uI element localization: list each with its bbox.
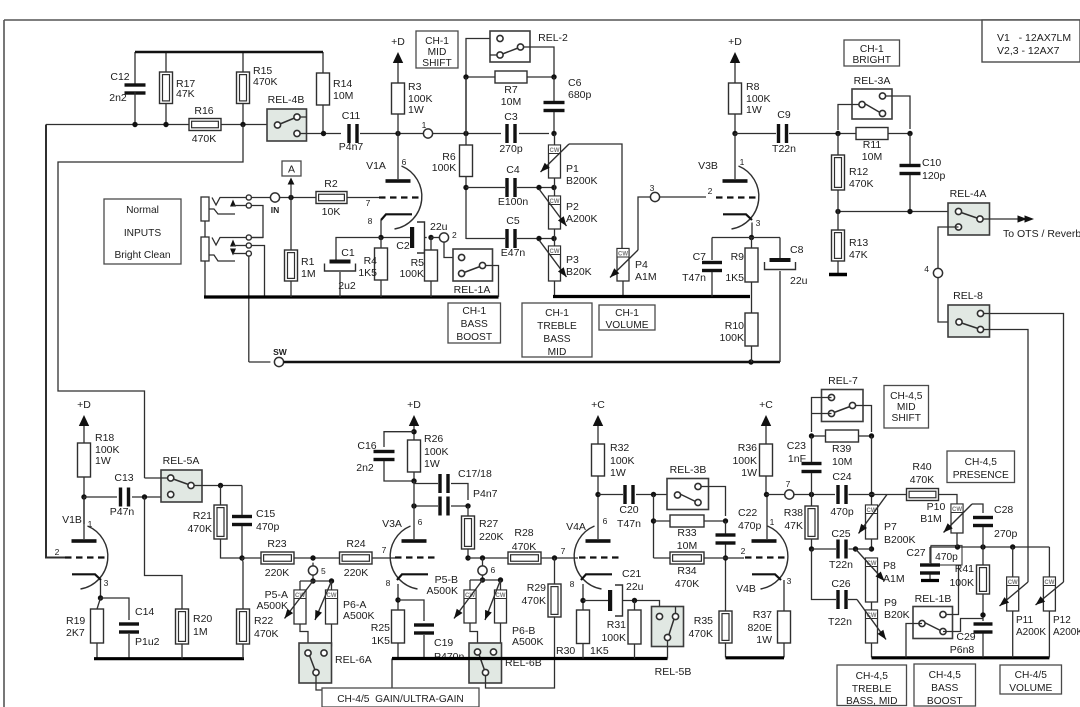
- svg-text:REL-6A: REL-6A: [335, 654, 372, 666]
- wire C17 left: [414, 483, 438, 485]
- wire R19 bottom: [96, 643, 98, 659]
- wire C26 right: [848, 599, 857, 601]
- svg-text:R18: R18: [95, 432, 114, 444]
- svg-text:100K: 100K: [949, 577, 974, 589]
- svg-text:C24: C24: [832, 471, 851, 483]
- wire REL-3B out: [709, 487, 726, 517]
- tube V4A: [574, 526, 601, 589]
- wire R20 bottom: [181, 644, 183, 659]
- svg-text:R23: R23: [267, 538, 286, 550]
- wire R39 left: [812, 435, 826, 437]
- wire R23 right: [294, 557, 340, 559]
- wire R9 bottom: [751, 282, 753, 297]
- wire C6 top: [553, 77, 555, 101]
- wire V3A plate: [413, 506, 415, 539]
- svg-text:220K: 220K: [265, 567, 290, 579]
- svg-text:C19: C19: [434, 637, 453, 649]
- node SW: [274, 357, 283, 366]
- svg-text:INPUTS: INPUTS: [124, 228, 162, 239]
- svg-text:CH-1: CH-1: [615, 308, 639, 319]
- wire C11 to node1: [360, 133, 423, 135]
- capacitor C6: [544, 101, 565, 104]
- svg-text:A1M: A1M: [635, 271, 657, 283]
- svg-text:BOOST: BOOST: [456, 332, 492, 343]
- svg-text:A1M: A1M: [883, 573, 905, 585]
- wire V1A cathode: [380, 220, 382, 238]
- svg-text:CH-4,5: CH-4,5: [965, 457, 998, 468]
- svg-text:8: 8: [570, 579, 575, 589]
- info box CH-4/5 GAIN: [322, 688, 479, 707]
- capacitor C17: [438, 474, 441, 493]
- wire C23 col: [811, 436, 813, 462]
- wire top thick bus: [134, 52, 136, 86]
- svg-text:470p: 470p: [935, 552, 958, 563]
- svg-text:C11: C11: [342, 110, 361, 122]
- svg-text:C2: C2: [396, 240, 410, 252]
- wire P2 bottom: [554, 229, 556, 246]
- wire rail to REL-5A top: [145, 477, 168, 479]
- relay REL-1B: [913, 607, 953, 639]
- svg-text:CW: CW: [1044, 580, 1054, 586]
- wire C5 left: [466, 238, 505, 240]
- svg-text:REL-3B: REL-3B: [670, 464, 707, 476]
- wire R11 right: [888, 133, 910, 135]
- svg-text:P1: P1: [566, 163, 579, 175]
- capacitor C18: [438, 497, 441, 516]
- wire C9 left: [735, 133, 776, 135]
- wire R23 left: [242, 557, 261, 559]
- svg-text:1W: 1W: [756, 634, 772, 646]
- svg-text:MID: MID: [428, 47, 447, 58]
- svg-text:A200K: A200K: [1053, 627, 1080, 638]
- wire R28 right: [541, 557, 578, 559]
- resistor R28: [508, 552, 541, 564]
- svg-text:C14: C14: [135, 606, 154, 618]
- wire P7 bottom: [871, 539, 873, 549]
- svg-text:T47n: T47n: [682, 272, 706, 284]
- P3 wiper: [539, 240, 567, 277]
- arrow to OTS: [1018, 215, 1028, 222]
- resistor R5: [430, 238, 432, 251]
- svg-text:P4: P4: [635, 259, 648, 271]
- relay REL-3A: [852, 89, 892, 119]
- P2 wiper: [539, 189, 567, 226]
- svg-text:REL-7: REL-7: [828, 375, 858, 387]
- svg-text:1: 1: [770, 517, 775, 527]
- wire REL-4A out: [990, 218, 1021, 220]
- svg-text:R39: R39: [832, 443, 851, 455]
- svg-text:REL-2: REL-2: [538, 32, 568, 44]
- svg-text:R20: R20: [193, 613, 212, 625]
- relay REL-1A: [453, 249, 493, 281]
- capacitor C25: [836, 540, 839, 559]
- page frame border: [4, 19, 1080, 21]
- svg-text:REL-8: REL-8: [953, 290, 983, 302]
- svg-text:SHIFT: SHIFT: [422, 58, 451, 69]
- resistor R18: [78, 443, 91, 477]
- svg-text:5: 5: [321, 566, 326, 576]
- wire V1A plate: [397, 134, 399, 180]
- ground bus tone stack: [553, 295, 750, 298]
- wire R33 right: [704, 520, 726, 522]
- svg-text:R41: R41: [955, 563, 974, 575]
- svg-text:1: 1: [422, 120, 427, 130]
- resistor R3: [392, 83, 405, 114]
- wire node6 rail: [470, 579, 501, 581]
- svg-text:CW: CW: [618, 251, 628, 257]
- resistor R22: [237, 609, 250, 644]
- svg-text:10M: 10M: [677, 540, 697, 552]
- svg-text:P10: P10: [927, 501, 946, 513]
- info box Normal INPUTS Bright Clean: [104, 199, 181, 264]
- wire y124 right: [221, 124, 267, 126]
- tube V3B: [732, 166, 759, 229]
- wire REL-1A to ground: [493, 266, 499, 298]
- wire REL-4A NC to node4: [938, 227, 959, 268]
- svg-text:VOLUME: VOLUME: [1009, 683, 1052, 694]
- P9 wiper: [857, 600, 886, 640]
- svg-text:C22: C22: [738, 507, 757, 519]
- svg-text:REL-5A: REL-5A: [163, 455, 200, 467]
- info box CH-1 BRIGHT: [844, 40, 900, 66]
- svg-text:B200K: B200K: [884, 534, 916, 546]
- svg-text:A200K: A200K: [566, 213, 598, 225]
- P11 wiper: [1000, 582, 1029, 606]
- wire C25 right: [849, 548, 872, 550]
- resistor R2: [316, 192, 347, 204]
- svg-text:470K: 470K: [187, 523, 212, 535]
- svg-text:+D: +D: [391, 36, 405, 48]
- capacitor C7: [702, 261, 722, 264]
- svg-text:22u: 22u: [430, 221, 448, 233]
- svg-text:R38: R38: [784, 507, 803, 519]
- wire V4A cathode: [582, 584, 584, 610]
- wire C19 branch: [398, 600, 424, 621]
- relay REL-4A: [948, 203, 990, 235]
- svg-text:470K: 470K: [192, 133, 217, 145]
- capacitor C15: [232, 515, 252, 518]
- resistor R25: [392, 610, 405, 643]
- svg-text:CW: CW: [550, 249, 560, 255]
- svg-text:P47n: P47n: [110, 506, 135, 518]
- wire rail down to R20: [145, 497, 183, 609]
- wire V1B cathode: [100, 580, 102, 598]
- resistor R31: [634, 601, 636, 611]
- svg-text:PRESENCE: PRESENCE: [953, 470, 1009, 481]
- svg-text:6: 6: [491, 565, 496, 575]
- wire node5 links: [312, 563, 314, 566]
- svg-text:R16: R16: [194, 105, 213, 117]
- svg-text:Bright Clean: Bright Clean: [114, 250, 170, 261]
- wire C7 branch: [711, 238, 713, 261]
- wire REL-1B common left: [906, 624, 922, 658]
- wire P3 bottom: [554, 281, 556, 296]
- svg-text:P3: P3: [566, 254, 579, 266]
- svg-text:220K: 220K: [479, 531, 504, 543]
- resistor R36: [760, 444, 773, 476]
- relay REL-4B: [267, 109, 307, 141]
- wire C18 left: [414, 505, 438, 507]
- wire R38 bottom: [811, 539, 813, 549]
- capacitor C26: [836, 590, 839, 609]
- svg-text:100K: 100K: [601, 632, 626, 644]
- wire R3 bottom: [397, 114, 399, 134]
- wire R28 left: [468, 557, 508, 559]
- svg-text:R35: R35: [694, 615, 713, 627]
- wire cathode rail: [712, 237, 778, 239]
- svg-text:8: 8: [386, 578, 391, 588]
- input jack J2 switch1: [230, 240, 236, 247]
- svg-text:7: 7: [561, 546, 566, 556]
- svg-text:C17/18: C17/18: [458, 468, 492, 480]
- svg-text:100K: 100K: [424, 446, 449, 458]
- svg-text:BRIGHT: BRIGHT: [853, 55, 892, 66]
- wire C4 left: [466, 187, 505, 189]
- svg-text:470K: 470K: [521, 595, 546, 607]
- relay REL-6A: [299, 643, 332, 683]
- svg-text:A500K: A500K: [256, 600, 288, 612]
- capacitor C16: [374, 450, 395, 453]
- ground bus input section: [204, 295, 499, 298]
- svg-text:MID: MID: [897, 402, 916, 413]
- resistor R35: [719, 611, 732, 643]
- svg-text:R30: R30: [556, 645, 575, 657]
- svg-text:22u: 22u: [790, 275, 808, 287]
- svg-text:R12: R12: [849, 166, 868, 178]
- svg-text:C13: C13: [114, 472, 133, 484]
- resistor R1: [290, 198, 292, 251]
- svg-text:1W: 1W: [741, 467, 757, 479]
- svg-text:P1u2: P1u2: [135, 636, 160, 648]
- svg-text:B1M: B1M: [920, 513, 942, 525]
- ground C27: [929, 575, 931, 580]
- wire R5 bottom: [430, 281, 432, 297]
- svg-text:BASS, MID: BASS, MID: [846, 696, 898, 707]
- P10 wiper: [944, 504, 973, 533]
- svg-text:2u2: 2u2: [338, 280, 356, 292]
- wire R32 bottom: [597, 476, 599, 539]
- svg-text:BOOST: BOOST: [927, 696, 963, 707]
- resistor R17: [165, 52, 167, 72]
- info box CH-4/5 VOLUME: [1000, 665, 1062, 694]
- node IN: [270, 193, 279, 202]
- node 7: [785, 490, 794, 499]
- wire left vertical to V1B grid: [46, 125, 65, 558]
- wire V1B plate: [83, 497, 85, 539]
- resistor R10: [751, 297, 753, 314]
- svg-text:IN: IN: [271, 205, 280, 215]
- svg-text:SHIFT: SHIFT: [892, 413, 921, 424]
- svg-text:10M: 10M: [832, 456, 852, 468]
- svg-text:R22: R22: [254, 615, 273, 627]
- resistor R34: [670, 552, 704, 564]
- svg-text:CH-1: CH-1: [860, 44, 884, 55]
- wire P9 bottom: [871, 643, 873, 658]
- wire V4B grid dash lead: [742, 557, 744, 559]
- svg-text:22u: 22u: [626, 581, 644, 593]
- wire C20 right: [636, 494, 674, 496]
- svg-text:CH-4,5: CH-4,5: [856, 671, 889, 682]
- wire REL-8 NO right: [990, 314, 1064, 583]
- wire node2 to REL-1A: [444, 242, 459, 257]
- svg-text:7: 7: [382, 545, 387, 555]
- svg-text:+D: +D: [407, 399, 421, 411]
- svg-text:C20: C20: [619, 504, 638, 516]
- P6-B wiper: [485, 580, 501, 620]
- svg-text:2: 2: [55, 547, 60, 557]
- wire V3B plate: [734, 134, 736, 180]
- ground bus CH45: [872, 656, 1050, 659]
- wire C19 bottom: [423, 635, 425, 659]
- resistor R30: [577, 610, 590, 644]
- resistor R38: [811, 495, 813, 506]
- info box CH-4,5 BASS BOOST: [914, 664, 976, 706]
- wire IN to R2: [280, 197, 316, 199]
- svg-text:T22n: T22n: [828, 616, 852, 628]
- svg-text:100K: 100K: [399, 268, 424, 280]
- svg-text:REL-5B: REL-5B: [655, 666, 692, 678]
- relay REL-2: [490, 31, 530, 62]
- wire C13 right: [132, 496, 167, 498]
- svg-text:100K: 100K: [432, 162, 457, 174]
- svg-text:P6n8: P6n8: [950, 644, 975, 656]
- capacitor C24: [836, 485, 839, 504]
- wire R35 bottom: [725, 643, 727, 658]
- svg-text:2: 2: [741, 546, 746, 556]
- svg-text:P9: P9: [884, 597, 897, 609]
- svg-text:A: A: [288, 164, 295, 176]
- input jack J2 switch2: [230, 249, 236, 256]
- svg-text:REL-4B: REL-4B: [268, 94, 305, 106]
- svg-text:120p: 120p: [922, 170, 946, 182]
- svg-text:CW: CW: [550, 199, 560, 205]
- svg-text:10M: 10M: [333, 90, 353, 102]
- wire R26 top dot: [411, 429, 416, 434]
- svg-text:P8: P8: [883, 560, 896, 572]
- svg-text:V1 - 12AX7LM: V1 - 12AX7LM: [997, 32, 1071, 44]
- wire R8 bottom: [734, 114, 736, 134]
- svg-text:TREBLE: TREBLE: [852, 684, 892, 695]
- svg-text:+D: +D: [77, 399, 91, 411]
- svg-text:CW: CW: [1008, 580, 1018, 586]
- wire R24 right: [372, 557, 379, 559]
- potentiometer P5-B: [464, 590, 476, 623]
- svg-text:C3: C3: [504, 111, 518, 123]
- wire node4 to REL-8: [938, 278, 948, 322]
- wire R4 bottom: [380, 280, 382, 297]
- tube legend box: [982, 20, 1080, 62]
- input jack J1 tip contact: [212, 198, 249, 206]
- wire P8 bottom: [871, 602, 873, 610]
- resistor R41: [982, 547, 984, 565]
- capacitor C10: [900, 164, 921, 167]
- svg-text:CH-1: CH-1: [545, 308, 569, 319]
- svg-text:C23: C23: [787, 440, 806, 452]
- node A box: [282, 161, 301, 176]
- wire C8 top: [779, 238, 781, 259]
- svg-text:1W: 1W: [408, 104, 424, 116]
- svg-text:1K5: 1K5: [725, 272, 744, 284]
- wire C21 to REL-5B: [655, 601, 660, 614]
- svg-text:47K: 47K: [176, 88, 195, 100]
- resistor R24: [340, 552, 373, 564]
- svg-text:REL-1A: REL-1A: [454, 284, 491, 296]
- wire P5-A bottom: [300, 624, 308, 650]
- svg-text:CW: CW: [550, 148, 560, 154]
- resistor R4: [380, 238, 382, 249]
- svg-text:R29: R29: [527, 582, 546, 594]
- svg-text:1M: 1M: [193, 626, 208, 638]
- wire REL4B out to C11: [307, 133, 342, 135]
- svg-text:2n2: 2n2: [356, 462, 374, 474]
- wire tip to IN node: [251, 197, 270, 199]
- svg-text:V1B: V1B: [62, 514, 82, 526]
- wire P11 top: [1012, 547, 1014, 577]
- ground bus R35-R37: [726, 656, 785, 659]
- wire R14 bottom: [322, 105, 324, 133]
- svg-text:2K7: 2K7: [66, 627, 85, 639]
- wire R25 bottom: [397, 643, 399, 659]
- input jack J2 sleeve zigzag: [209, 255, 235, 261]
- wire V4B grid lead: [726, 557, 743, 559]
- capacitor C12: [125, 83, 146, 86]
- wire V3B cathode: [751, 223, 753, 238]
- svg-text:470K: 470K: [253, 76, 278, 88]
- svg-text:680p: 680p: [568, 89, 592, 101]
- wire P6-B top: [500, 580, 502, 590]
- potentiometer P12: [1043, 577, 1055, 611]
- P12 wiper: [1036, 582, 1064, 605]
- node 5: [308, 566, 317, 575]
- capacitor C16 branch: [384, 432, 414, 447]
- svg-text:B20K: B20K: [566, 266, 592, 278]
- wire node5 rail: [300, 580, 332, 582]
- svg-text:R24: R24: [346, 538, 365, 550]
- svg-text:BASS: BASS: [543, 334, 570, 345]
- wire REL-1B NC: [943, 619, 983, 632]
- wire REL-7 left: [812, 398, 832, 433]
- svg-text:470K: 470K: [910, 474, 935, 486]
- input jack J2 tip contact: [212, 238, 246, 246]
- svg-text:P2: P2: [566, 201, 579, 213]
- wire R10 bottom: [751, 346, 753, 362]
- wire V4B plate up: [766, 495, 768, 540]
- resistor R14: [317, 73, 330, 105]
- svg-text:R36: R36: [738, 442, 757, 454]
- wire R6 col: [465, 134, 467, 146]
- wire C14 bottom: [128, 634, 130, 659]
- potentiometer P3: [549, 246, 561, 281]
- wire cathode node: [381, 237, 410, 239]
- svg-text:3: 3: [756, 218, 761, 228]
- P7 wiper: [859, 495, 888, 534]
- info box CH-1 VOLUME: [599, 305, 655, 330]
- relay REL-5A: [161, 470, 202, 502]
- wire R39 right: [859, 435, 872, 437]
- svg-text:C29: C29: [956, 631, 975, 643]
- wire J1 switch to J2 tip: [251, 206, 263, 238]
- svg-text:1nF: 1nF: [788, 453, 806, 465]
- wire REL-1B NO up: [953, 547, 959, 615]
- svg-text:C4: C4: [506, 164, 520, 176]
- wire P6-A top: [331, 581, 333, 590]
- wire y547 rail: [930, 546, 1049, 548]
- node 3: [650, 192, 659, 201]
- wire V4B cathode: [783, 580, 785, 611]
- wire C9 right: [789, 133, 856, 135]
- svg-text:100K: 100K: [719, 332, 744, 344]
- svg-text:CH-1: CH-1: [462, 306, 486, 317]
